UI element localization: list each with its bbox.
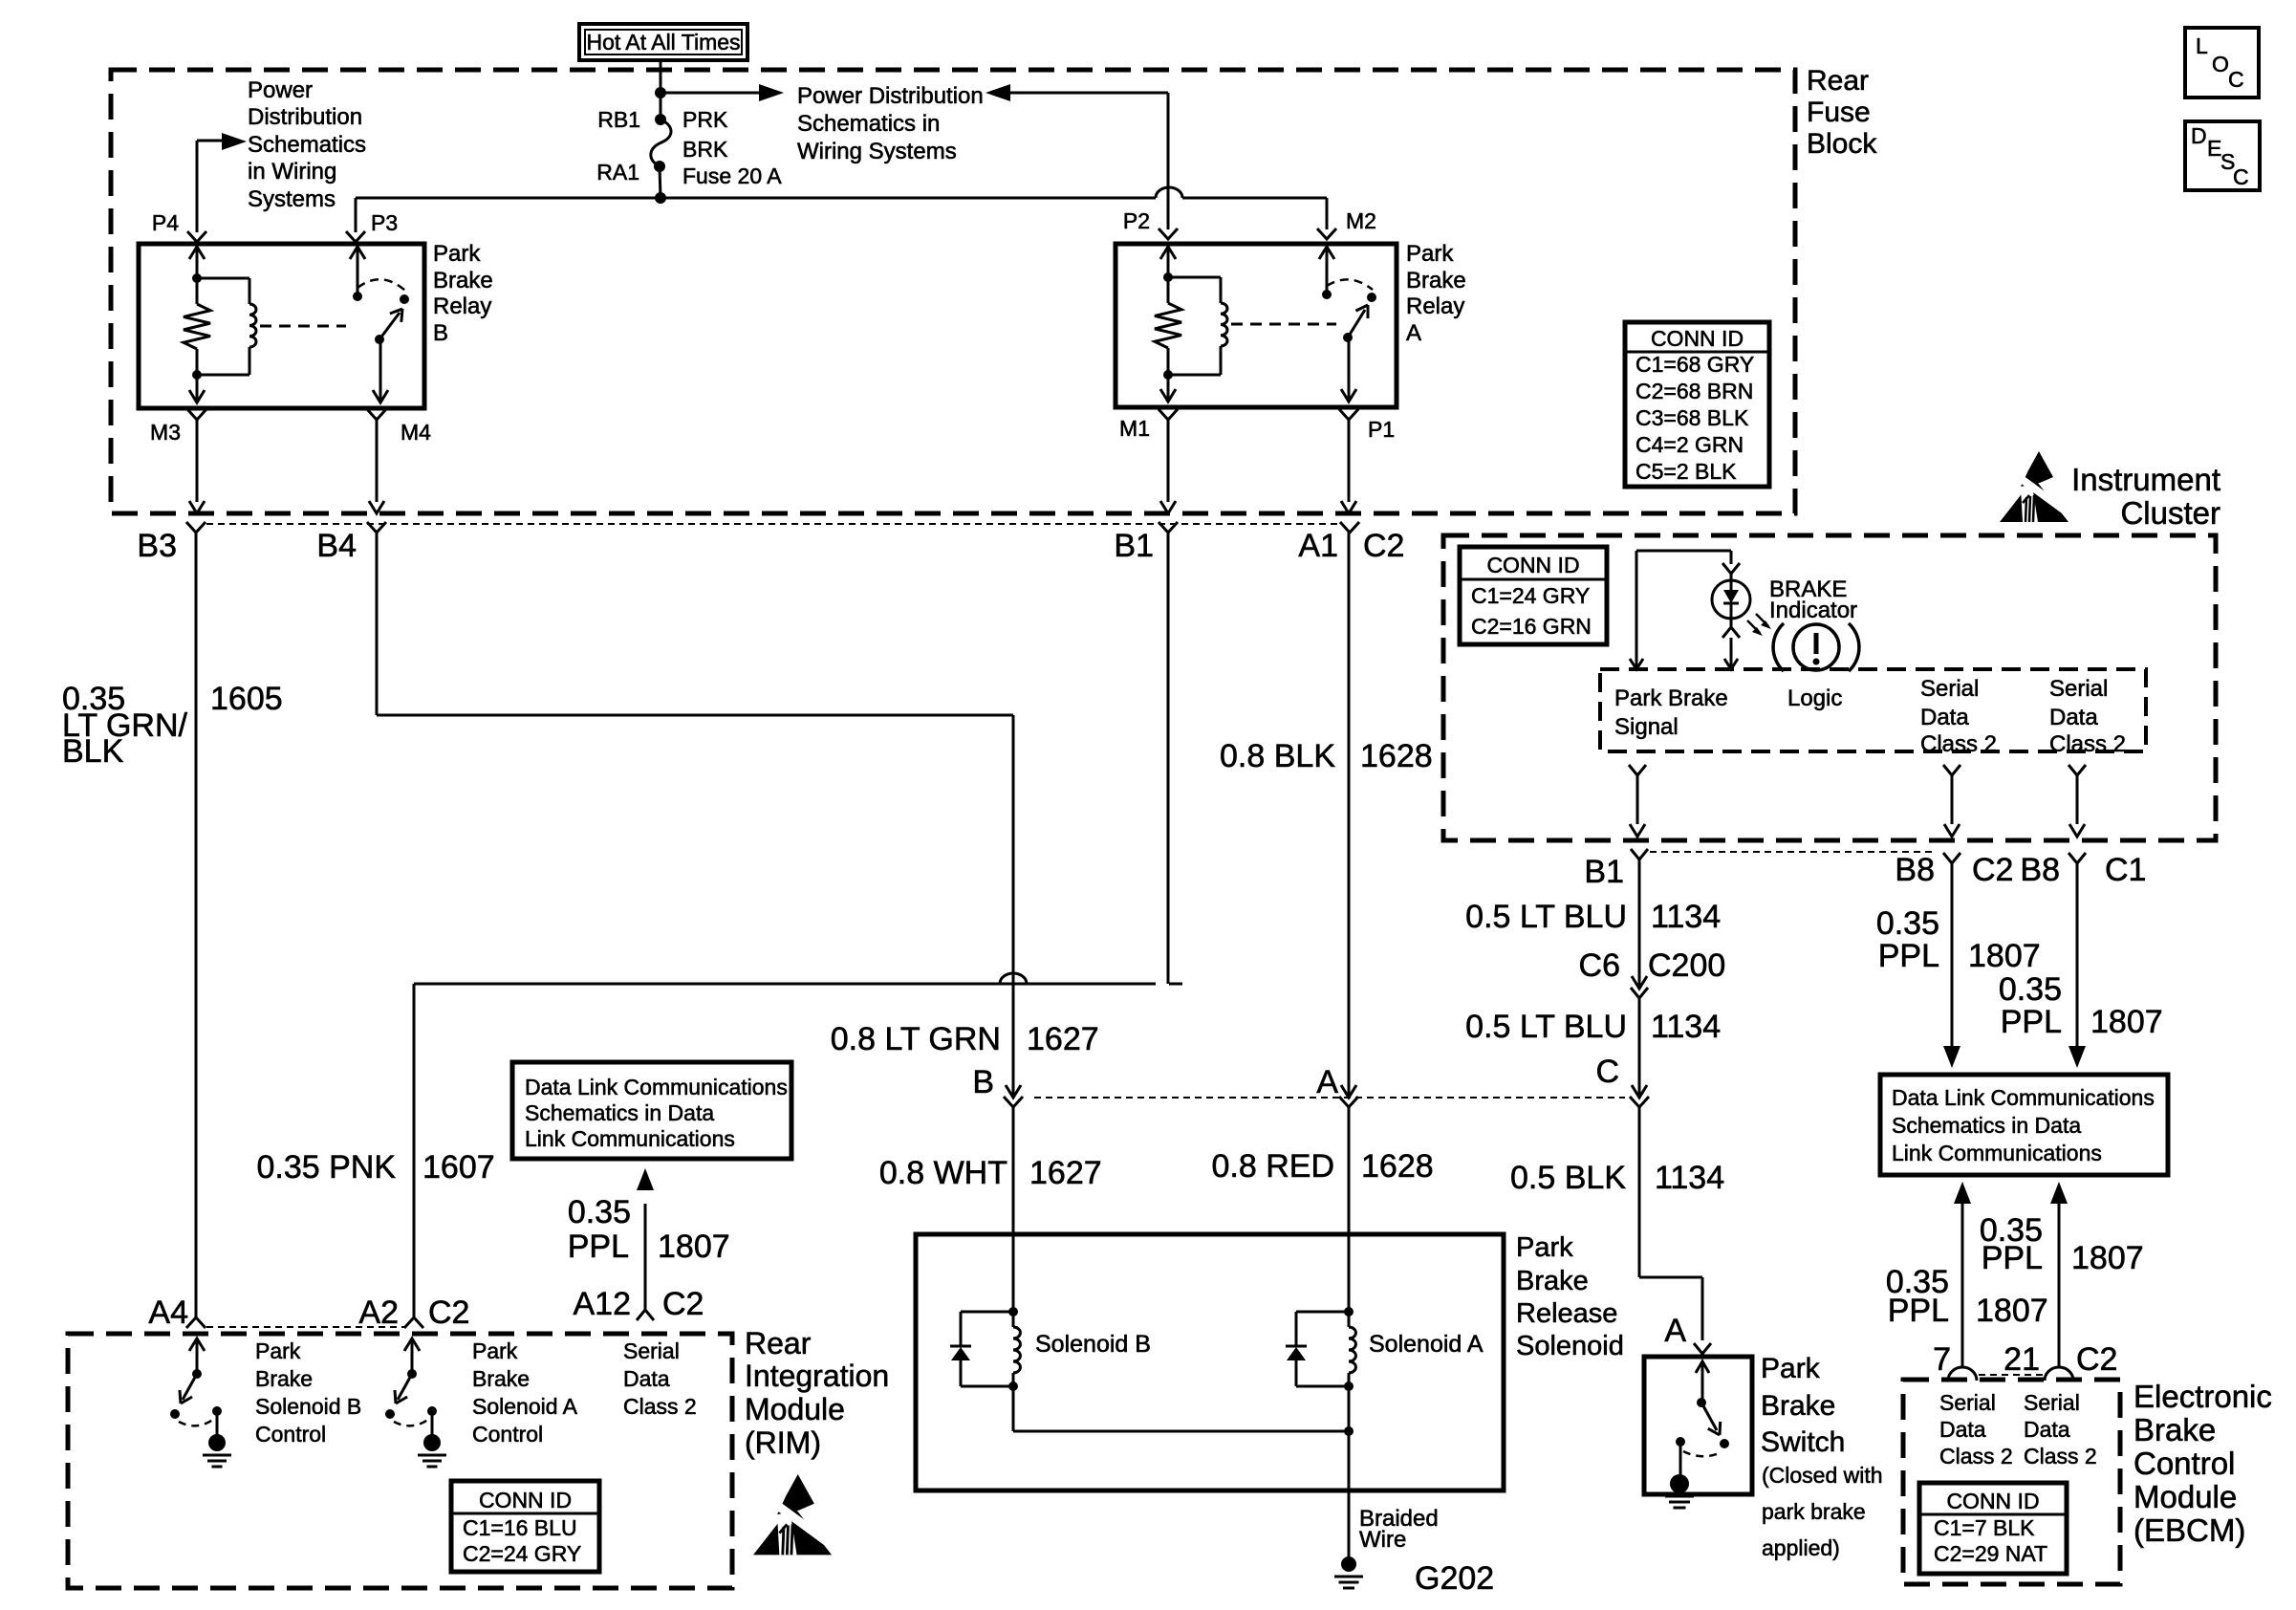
svg-text:Power Distribution: Power Distribution	[797, 83, 984, 109]
relay B switch throw arc dashed	[357, 279, 405, 291]
cluster serial data output first	[1943, 765, 1960, 775]
instrument cluster dashed outline	[1443, 535, 2216, 840]
svg-text:B1: B1	[1584, 854, 1624, 890]
svg-text:Serial: Serial	[2049, 676, 2108, 702]
svg-text:B3: B3	[137, 528, 177, 564]
EBCM connector hooks row	[1948, 1367, 1977, 1381]
svg-text:M2: M2	[1346, 208, 1376, 233]
rear integration module dashed outline	[68, 1334, 732, 1588]
coil relay A	[1168, 276, 1221, 279]
svg-text:A: A	[1406, 320, 1421, 346]
connector row dashed below cluster	[1650, 851, 1937, 853]
svg-text:C200: C200	[1648, 947, 1725, 984]
svg-text:0.8 BLK: 0.8 BLK	[1220, 738, 1335, 774]
svg-text:Link Communications: Link Communications	[525, 1126, 735, 1151]
svg-text:Brake: Brake	[255, 1366, 313, 1391]
svg-text:CONN ID: CONN ID	[1486, 553, 1579, 577]
solenoid A coil	[1348, 1312, 1351, 1327]
svg-text:PPL: PPL	[1888, 1293, 1949, 1329]
svg-text:Park Brake: Park Brake	[1614, 685, 1728, 711]
svg-text:O: O	[2212, 52, 2229, 76]
svg-text:Brake: Brake	[1516, 1266, 1589, 1296]
svg-text:Solenoid A: Solenoid A	[1369, 1331, 1484, 1358]
Hot At All Times label box	[579, 24, 747, 60]
svg-text:Park: Park	[472, 1338, 518, 1363]
wire P4 drop with arrow to power distribution	[196, 141, 199, 232]
connector B	[1006, 1085, 1021, 1098]
park brake release solenoid box	[916, 1234, 1504, 1490]
svg-text:P1: P1	[1368, 417, 1395, 442]
svg-text:Schematics: Schematics	[248, 132, 366, 158]
svg-text:B8: B8	[2020, 852, 2060, 888]
relay B switch NC contact	[400, 294, 409, 304]
wire B3 to A4 0.35 LT GRN/BLK 1605	[195, 533, 198, 1317]
svg-text:1134: 1134	[1655, 1160, 1724, 1196]
connector M2	[1317, 228, 1336, 239]
svg-text:0.35: 0.35	[1999, 971, 2062, 1008]
connector B8 C1	[2069, 853, 2086, 863]
node relay B coil bottom	[192, 370, 202, 380]
resistor relay A	[1167, 277, 1170, 303]
svg-text:Fuse 20 A: Fuse 20 A	[682, 163, 782, 188]
svg-text:Park: Park	[1406, 241, 1454, 267]
wire cluster serial data to DLC 0.35 PPL 1807 first	[1951, 863, 1954, 1046]
ESD symbol instrument cluster	[2000, 451, 2072, 522]
svg-text:Class 2: Class 2	[1920, 731, 1997, 757]
svg-text:CONN ID: CONN ID	[479, 1488, 572, 1512]
svg-text:0.35: 0.35	[1876, 905, 1939, 942]
svg-text:G202: G202	[1415, 1560, 1494, 1597]
svg-text:P2: P2	[1123, 208, 1150, 233]
EBCM dashed outline	[1903, 1380, 2120, 1584]
svg-text:0.8 WHT: 0.8 WHT	[879, 1155, 1007, 1191]
svg-text:A: A	[1316, 1064, 1338, 1100]
wire M1 to A2 0.35 PNK 1607	[1167, 533, 1170, 984]
svg-text:in Wiring: in Wiring	[248, 159, 336, 185]
diode solenoid B	[961, 1311, 1013, 1314]
svg-text:Solenoid B: Solenoid B	[1035, 1331, 1151, 1358]
wire A12 serial data to DLC box 0.35 PPL 1807	[644, 1204, 647, 1310]
wire relay A M1 inside	[1167, 375, 1170, 402]
wire relay A P1 inside	[1348, 337, 1351, 402]
ground G202	[1341, 1556, 1356, 1572]
relay A switch NC contact	[1367, 293, 1376, 302]
wire B4 to solenoid B 0.8 LT GRN 1627	[376, 533, 379, 715]
wire relay B M4 inside	[379, 339, 382, 402]
svg-text:Block: Block	[1807, 128, 1877, 160]
svg-text:C2: C2	[428, 1295, 469, 1331]
svg-text:Data: Data	[2049, 705, 2098, 730]
svg-text:C2=24 GRY: C2=24 GRY	[463, 1541, 581, 1566]
svg-text:Control: Control	[255, 1422, 326, 1447]
relay A switch blade	[1348, 310, 1365, 337]
svg-text:21: 21	[2004, 1341, 2040, 1378]
svg-text:B1: B1	[1114, 528, 1154, 564]
connector P4	[187, 231, 206, 242]
svg-text:C1=24 GRY: C1=24 GRY	[1471, 583, 1590, 608]
svg-text:CONN ID: CONN ID	[1651, 326, 1744, 351]
node relay B coil top	[192, 273, 202, 283]
svg-text:C2: C2	[1363, 528, 1404, 564]
svg-text:(Closed with: (Closed with	[1762, 1463, 1883, 1488]
svg-text:Electronic: Electronic	[2134, 1379, 2272, 1414]
svg-text:Serial: Serial	[2024, 1390, 2080, 1415]
wire C to park brake switch 0.5 BLK 1134	[1638, 1107, 1641, 1277]
relay A switch common	[1319, 247, 1334, 259]
svg-text:Fuse: Fuse	[1807, 97, 1871, 128]
svg-text:Integration: Integration	[745, 1359, 889, 1393]
relay box Park Brake Relay B	[139, 244, 424, 408]
connector brake indicator top	[1722, 563, 1740, 574]
svg-text:C1=7 BLK: C1=7 BLK	[1934, 1515, 2035, 1540]
svg-text:C3=68 BLK: C3=68 BLK	[1635, 405, 1749, 430]
svg-text:0.5 LT BLU: 0.5 LT BLU	[1465, 1009, 1627, 1045]
svg-text:Module: Module	[2134, 1479, 2237, 1514]
svg-text:Serial: Serial	[623, 1338, 680, 1363]
svg-text:A1: A1	[1298, 528, 1338, 564]
relay A switch throw arc dashed	[1327, 279, 1373, 290]
svg-text:Cluster: Cluster	[2120, 495, 2220, 531]
connector A2 C2	[404, 1317, 423, 1328]
svg-text:Instrument: Instrument	[2071, 462, 2220, 497]
svg-text:7: 7	[1933, 1341, 1951, 1378]
connector B4	[367, 522, 386, 533]
wire fuse to bus	[660, 166, 661, 198]
svg-text:0.35: 0.35	[568, 1194, 631, 1230]
svg-text:M4: M4	[401, 420, 431, 445]
svg-text:A: A	[1664, 1313, 1686, 1349]
svg-text:B: B	[972, 1064, 994, 1100]
svg-text:P4: P4	[152, 210, 179, 235]
svg-text:B8: B8	[1895, 852, 1935, 888]
connector A	[1341, 1085, 1356, 1098]
svg-text:C1: C1	[2105, 852, 2146, 888]
svg-text:C2=16 GRN: C2=16 GRN	[1471, 614, 1592, 639]
cluster serial data output second	[2069, 765, 2086, 775]
relay B switch blade	[379, 313, 400, 339]
svg-text:Data: Data	[2024, 1417, 2070, 1442]
svg-text:A2: A2	[358, 1295, 399, 1331]
connector A1 C2	[1340, 522, 1359, 533]
cluster park brake signal output	[1629, 765, 1646, 775]
svg-text:C4=2 GRN: C4=2 GRN	[1635, 432, 1744, 457]
park brake switch ground	[1679, 1442, 1682, 1478]
wire cluster serial data to DLC 0.35 PPL 1807 second	[2076, 863, 2079, 1046]
svg-text:C2=29 NAT: C2=29 NAT	[1934, 1541, 2047, 1566]
svg-text:PPL: PPL	[568, 1229, 629, 1265]
LED emission arrows	[1747, 620, 1760, 633]
svg-text:C2: C2	[662, 1286, 704, 1322]
svg-text:1628: 1628	[1360, 738, 1433, 774]
svg-text:1605: 1605	[210, 681, 283, 717]
connector C	[1632, 1085, 1647, 1098]
svg-text:1607: 1607	[422, 1149, 495, 1186]
node solenoid B bottom	[1008, 1382, 1018, 1391]
svg-text:1134: 1134	[1651, 899, 1721, 935]
svg-text:Solenoid: Solenoid	[1516, 1331, 1624, 1361]
svg-text:Solenoid A: Solenoid A	[472, 1394, 578, 1419]
diode solenoid A	[1296, 1311, 1349, 1314]
svg-text:Schematics in: Schematics in	[797, 111, 940, 137]
svg-text:1628: 1628	[1361, 1148, 1434, 1185]
svg-text:Brake: Brake	[472, 1366, 530, 1391]
svg-text:Signal: Signal	[1614, 714, 1679, 740]
svg-text:Class 2: Class 2	[1939, 1444, 2013, 1469]
resistor relay B	[196, 278, 199, 304]
svg-text:C: C	[1595, 1054, 1619, 1090]
wire arrow to power distribution left	[661, 92, 765, 95]
svg-text:Brake: Brake	[1761, 1390, 1835, 1422]
svg-text:BLK: BLK	[62, 733, 124, 770]
node relay A coil bottom	[1163, 370, 1173, 380]
svg-text:C1=16 BLU: C1=16 BLU	[463, 1515, 577, 1540]
svg-text:C2: C2	[1972, 852, 2013, 888]
LED brake indicator	[1712, 580, 1750, 619]
svg-text:C2=68 BRN: C2=68 BRN	[1635, 379, 1753, 403]
svg-text:park brake: park brake	[1762, 1499, 1866, 1524]
svg-text:Relay: Relay	[1406, 294, 1464, 319]
node solenoid ground junction	[1344, 1426, 1354, 1436]
svg-text:Relay: Relay	[433, 294, 491, 319]
relay A coil input arrow	[1160, 247, 1176, 259]
CONN ID box RIM	[451, 1481, 599, 1572]
svg-text:(EBCM): (EBCM)	[2134, 1512, 2245, 1548]
svg-text:Module: Module	[745, 1392, 845, 1426]
node relay A coil top	[1163, 272, 1173, 282]
relay A control dashed link	[1231, 323, 1336, 326]
wire cluster B1 to park brake switch 0.5 LT BLU 1134	[1638, 859, 1641, 989]
svg-text:(RIM): (RIM)	[745, 1425, 821, 1460]
fuse PRK BRK Fuse 20 A	[655, 114, 666, 125]
svg-text:0.35 PNK: 0.35 PNK	[256, 1149, 396, 1186]
svg-text:Park: Park	[255, 1338, 301, 1363]
svg-text:B4: B4	[316, 528, 357, 564]
svg-text:PPL: PPL	[2001, 1004, 2062, 1040]
svg-text:Data Link Communications: Data Link Communications	[525, 1075, 788, 1099]
svg-text:M3: M3	[150, 420, 181, 445]
wire relay B M3 inside	[196, 375, 199, 402]
svg-text:Schematics in Data: Schematics in Data	[1892, 1113, 2081, 1138]
svg-text:Park: Park	[1761, 1353, 1821, 1384]
svg-text:1807: 1807	[1968, 938, 2041, 974]
wire EBCM serial data to DLC second 0.35 PPL 1807	[2058, 1204, 2061, 1367]
relay B coil input arrow	[189, 247, 205, 259]
connector B3	[186, 522, 206, 533]
svg-text:Solenoid B: Solenoid B	[255, 1394, 361, 1419]
park brake switch box	[1644, 1357, 1752, 1494]
node solenoid B top	[1008, 1307, 1018, 1316]
svg-text:C: C	[2233, 164, 2249, 189]
connector C6 C200	[1632, 976, 1647, 989]
svg-text:Data: Data	[623, 1366, 670, 1391]
node solenoid A bottom	[1344, 1382, 1354, 1391]
svg-text:Schematics in Data: Schematics in Data	[525, 1100, 714, 1125]
svg-text:Data Link Communications: Data Link Communications	[1892, 1085, 2155, 1110]
wire brake indicator feed	[1635, 551, 1638, 669]
svg-text:C2: C2	[2076, 1341, 2117, 1378]
svg-text:PPL: PPL	[1878, 938, 1939, 974]
wire B to solenoid B 0.8 WHT 1627	[1012, 1107, 1015, 1312]
svg-text:Brake: Brake	[1406, 268, 1466, 294]
svg-text:Brake: Brake	[2134, 1412, 2216, 1447]
svg-text:Data: Data	[1939, 1417, 1986, 1442]
data link communications reference box EBCM	[1880, 1075, 2168, 1175]
svg-text:Indicator: Indicator	[1769, 598, 1857, 623]
connector row dashed B3 B4 B1 A1	[206, 523, 1338, 525]
svg-text:1807: 1807	[2090, 1004, 2163, 1040]
connector P3	[346, 231, 365, 242]
wire P1 to A1 0.8 BLK 1628	[1348, 533, 1351, 1098]
LOC reference box	[2185, 28, 2259, 98]
cluster logic inner dashed box	[1600, 669, 2146, 751]
svg-text:L: L	[2196, 33, 2208, 58]
wire main feed bus	[356, 197, 1156, 200]
svg-text:Park: Park	[1516, 1232, 1573, 1263]
wire M2 riser	[1326, 198, 1329, 229]
svg-text:PPL: PPL	[1982, 1240, 2043, 1276]
solenoid B coil	[1012, 1312, 1015, 1327]
wire braided wire to G202	[1348, 1386, 1351, 1558]
connector row dashed A4 A2	[206, 1326, 405, 1328]
svg-text:Brake: Brake	[433, 268, 493, 294]
svg-text:RA1: RA1	[596, 160, 639, 185]
svg-text:Wire: Wire	[1359, 1527, 1406, 1553]
svg-text:1134: 1134	[1651, 1009, 1721, 1045]
connector M3	[187, 409, 206, 420]
connector B1 cluster	[1631, 849, 1648, 859]
svg-text:B: B	[433, 320, 448, 346]
connector brake indicator bottom	[1722, 627, 1740, 638]
svg-text:0.8 RED: 0.8 RED	[1212, 1148, 1335, 1185]
svg-text:1627: 1627	[1027, 1021, 1099, 1057]
node solenoid A top	[1344, 1307, 1354, 1316]
svg-text:Serial: Serial	[1939, 1390, 1996, 1415]
svg-text:Rear: Rear	[745, 1326, 812, 1360]
svg-text:applied): applied)	[1762, 1535, 1840, 1560]
ESD symbol RIM	[753, 1474, 836, 1555]
svg-text:Wiring Systems: Wiring Systems	[797, 139, 957, 164]
connector A4	[186, 1317, 206, 1328]
solenoid B control switch	[189, 1338, 205, 1351]
svg-text:Logic: Logic	[1787, 685, 1842, 711]
svg-text:P3: P3	[371, 210, 398, 235]
svg-text:Switch: Switch	[1761, 1426, 1845, 1458]
svg-text:Data: Data	[1920, 705, 1969, 730]
svg-text:C5=2 BLK: C5=2 BLK	[1635, 459, 1737, 484]
svg-text:C1=68 GRY: C1=68 GRY	[1635, 352, 1754, 377]
relay box Park Brake Relay A	[1116, 244, 1397, 407]
svg-text:Distribution: Distribution	[248, 104, 362, 130]
wire solenoid B ground run	[1012, 1386, 1015, 1431]
wire arrow from relay A feed to power distribution	[986, 84, 1010, 101]
DESC reference box	[2185, 121, 2260, 190]
connector A park brake switch	[1694, 1343, 1711, 1354]
CONN ID box cluster	[1460, 547, 1607, 644]
brake warning symbol (!)	[1793, 624, 1839, 670]
svg-text:A12: A12	[574, 1286, 632, 1322]
svg-text:Release: Release	[1516, 1298, 1617, 1329]
node junction at fuse top	[655, 87, 666, 98]
wire A to solenoid A 0.8 RED 1628	[1348, 1107, 1351, 1312]
svg-text:Class 2: Class 2	[2049, 731, 2126, 757]
svg-text:Park: Park	[433, 241, 481, 267]
wire drop to P2 bus	[1167, 93, 1170, 229]
CONN ID box rear fuse block	[1625, 322, 1769, 487]
connector P1	[1339, 409, 1358, 420]
svg-text:Serial: Serial	[1920, 676, 1979, 702]
svg-text:Rear: Rear	[1807, 65, 1869, 97]
svg-text:Link Communications: Link Communications	[1892, 1141, 2102, 1165]
relay B switch common	[350, 247, 365, 259]
connector B1	[1159, 522, 1178, 533]
svg-text:M1: M1	[1119, 416, 1150, 441]
svg-text:1807: 1807	[1976, 1293, 2048, 1329]
svg-text:Class 2: Class 2	[2024, 1444, 2097, 1469]
connector A12 C2	[637, 1310, 654, 1320]
svg-text:1807: 1807	[2071, 1240, 2144, 1276]
node junction fuse to bus	[655, 192, 666, 204]
coil relay B	[197, 277, 249, 280]
svg-text:Control: Control	[472, 1422, 543, 1447]
svg-text:PRK: PRK	[682, 107, 728, 132]
svg-text:Class 2: Class 2	[623, 1394, 697, 1419]
connector B8 C2	[1943, 853, 1960, 863]
svg-text:0.8 LT GRN: 0.8 LT GRN	[831, 1021, 1001, 1057]
CONN ID box EBCM	[1919, 1483, 2067, 1574]
svg-text:Power: Power	[248, 77, 313, 103]
svg-text:1807: 1807	[658, 1229, 730, 1265]
svg-text:RB1: RB1	[597, 107, 640, 132]
wire P3 riser	[355, 198, 357, 232]
solenoid A control switch	[404, 1338, 420, 1351]
connector row dashed B A C	[1034, 1097, 1625, 1099]
svg-text:C6: C6	[1579, 947, 1620, 984]
connector M1	[1159, 409, 1178, 420]
wire 0.5 LT BLU 1134 lower	[1638, 998, 1641, 1098]
connector P2	[1159, 228, 1178, 239]
svg-text:Control: Control	[2134, 1446, 2235, 1481]
wire EBCM serial data to DLC first 0.35 PPL 1807	[1961, 1204, 1964, 1367]
svg-text:Hot At All Times: Hot At All Times	[586, 30, 740, 54]
rear fuse block dashed outline	[111, 70, 1795, 513]
svg-text:0.5 BLK: 0.5 BLK	[1510, 1160, 1626, 1196]
park brake switch contacts	[1696, 1361, 1709, 1373]
svg-text:Systems: Systems	[248, 186, 336, 212]
svg-text:C: C	[2228, 67, 2244, 92]
svg-text:0.5 LT BLU: 0.5 LT BLU	[1465, 899, 1627, 935]
wire fuse feed from Hot At All Times	[660, 60, 662, 120]
relay B control dashed link	[260, 325, 346, 328]
data link communications reference box RIM	[512, 1062, 791, 1159]
svg-text:A4: A4	[148, 1295, 188, 1331]
svg-text:CONN ID: CONN ID	[1946, 1489, 2039, 1513]
connector M4	[367, 409, 386, 420]
svg-text:D: D	[2191, 123, 2207, 148]
svg-text:BRK: BRK	[682, 137, 728, 162]
svg-text:1627: 1627	[1029, 1155, 1102, 1191]
